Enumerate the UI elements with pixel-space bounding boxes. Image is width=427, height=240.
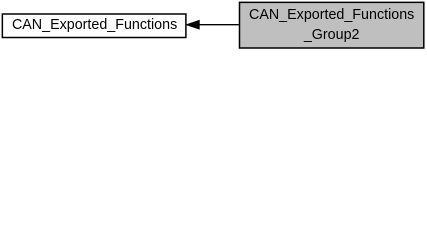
svg-text:_Group2: _Group2 bbox=[303, 27, 360, 43]
svg-text:CAN_Exported_Functions: CAN_Exported_Functions bbox=[12, 17, 177, 33]
svg-text:CAN_Exported_Functions: CAN_Exported_Functions bbox=[249, 7, 414, 23]
